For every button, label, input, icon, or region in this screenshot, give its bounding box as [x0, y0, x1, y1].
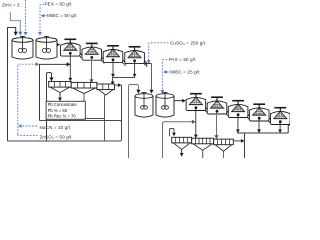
flotation cell Z3: [228, 100, 248, 118]
Z1 concentrate stem: [195, 109, 197, 138]
launder step: [248, 114, 251, 121]
launder step: [290, 121, 293, 128]
svg-text:MIBC = 25 g/t: MIBC = 25 g/t: [170, 70, 200, 75]
svg-text:NaCN = 10 g/t: NaCN = 10 g/t: [40, 125, 71, 130]
Pb tails line into tank C3: [151, 64, 153, 94]
cleaner tails recycle loop: [8, 121, 122, 142]
Zn cleaner feed hook: [170, 128, 174, 136]
CuSO4 dashed line: [149, 43, 169, 64]
scavenger return line into tank C3: [129, 85, 139, 159]
arrow tank C4 to Zn rougher: [174, 100, 185, 102]
Zn concentrate downcomer: [244, 133, 246, 158]
F2 concentrate stem: [91, 59, 93, 83]
launder step: [101, 57, 104, 64]
ZnCL3 tails stem: [223, 151, 225, 158]
PbCL1 concentrate arrow into product box: [59, 93, 61, 101]
MIBC dashed arrow: [41, 15, 46, 17]
NaCN/ZnSO4 dashed riser: [18, 64, 39, 134]
Pb concentrate product box: [46, 101, 85, 119]
svg-text:PAX = 50 g/t: PAX = 50 g/t: [169, 57, 196, 62]
launder step: [122, 59, 125, 66]
flotation cell Z1: [186, 93, 206, 111]
launder step: [226, 111, 229, 118]
Z3 concentrate stem: [237, 116, 239, 133]
svg-text:ZnSO₄ = 50 g/t: ZnSO₄ = 50 g/t: [40, 135, 73, 140]
flotation cell Z2: [207, 96, 227, 114]
F1 concentrate stem: [69, 55, 71, 82]
launder step: [144, 60, 147, 67]
flotation cell F3: [103, 45, 123, 63]
flotation cell F2: [82, 43, 102, 61]
cleaner bank PbCL3: [97, 84, 115, 95]
Pb cleaner feed hook: [47, 73, 52, 142]
cleaner bank PbCL1: [49, 82, 71, 93]
svg-text:Pb Rec % = 70: Pb Rec % = 70: [48, 114, 77, 119]
svg-text:Pb % = 60: Pb % = 60: [48, 108, 68, 113]
flotation cell F1: [61, 39, 81, 57]
conditioning tank C4: [156, 92, 174, 117]
F4 concentrate stem: [134, 62, 136, 77]
Z2 concentrate stem: [216, 113, 218, 139]
ZnCL2 tails stem: [202, 150, 204, 158]
svg-text:Zn% = 3: Zn% = 3: [2, 2, 20, 7]
Zn cleaner feed elbow: [163, 122, 196, 158]
svg-text:MIBC = 50 g/t: MIBC = 50 g/t: [47, 13, 77, 18]
svg-text:Pb Concentrate: Pb Concentrate: [48, 102, 78, 107]
ZnCL3 overflow arrow: [233, 140, 244, 142]
cleaner bank ZnCL2: [192, 138, 214, 150]
F3 concentrate stem: [112, 61, 114, 77]
svg-text:CuSO₄ = 250 g/t: CuSO₄ = 250 g/t: [170, 40, 206, 45]
PbCL3 overflow arrow to recycle: [115, 84, 122, 86]
reagent dashed line into tank C1: [25, 0, 27, 35]
Zn bank tails outlet: [288, 124, 290, 133]
recycle line into tank C1: [8, 28, 16, 142]
launder step: [205, 107, 208, 114]
cleaner bank PbCL2: [71, 82, 97, 93]
cleaner bank ZnCL1: [172, 137, 192, 149]
arrow tank C2 to rougher F1: [57, 44, 59, 46]
reagent dashed bracket into tank C2: [40, 4, 44, 35]
Pb bank tails outlet: [144, 63, 151, 65]
flotation cell F4: [125, 46, 145, 64]
NaCN dashed arrow: [18, 125, 37, 127]
launder step: [269, 118, 272, 125]
conditioning tank C3: [135, 92, 153, 117]
PbCL2-PbCL3 tails U connector: [84, 94, 105, 141]
flotation cell Z5: [271, 107, 291, 125]
cleaner bank ZnCL3: [214, 139, 234, 151]
Z4 concentrate stem: [258, 120, 260, 133]
PbCL3 overflow recycle line: [118, 85, 122, 141]
Zn collector line: [237, 132, 288, 134]
feed line into tank C1: [10, 12, 20, 35]
flotation cell Z4: [249, 103, 269, 121]
MIBC(2) dashed arrow: [164, 71, 169, 73]
Pb cleaner feed line: [40, 64, 71, 120]
ZnCL1 concentrate arrow: [181, 149, 183, 156]
F3+F4 concentrate collector: [113, 77, 135, 84]
conditioning tank C1: [12, 36, 33, 59]
svg-text:PEX = 50 g/t: PEX = 50 g/t: [45, 1, 73, 6]
launder step: [80, 53, 83, 60]
Z5 concentrate stem: [279, 123, 281, 133]
PAX/MIBC dashed bracket into tank C4: [162, 60, 167, 93]
ZnSO4 dashed elbow: [18, 134, 38, 135]
conditioning tank C2: [36, 36, 57, 59]
